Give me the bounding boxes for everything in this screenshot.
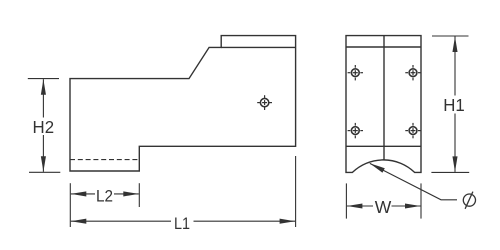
svg-text:H1: H1 bbox=[443, 95, 465, 115]
left view outline bbox=[70, 36, 296, 171]
dimension H2 bbox=[28, 79, 61, 173]
left view top plate edge line bbox=[221, 46, 295, 48]
dimension L1 bbox=[71, 156, 296, 227]
diameter symbol bbox=[463, 192, 475, 209]
hole center mark bottom-right bbox=[405, 123, 420, 138]
svg-text:L2: L2 bbox=[96, 187, 113, 205]
dimension H1 bbox=[431, 36, 469, 172]
hole center mark left view bbox=[257, 95, 272, 110]
hidden line (dashed) bbox=[70, 159, 139, 161]
dimension W bbox=[346, 183, 421, 218]
svg-text:H2: H2 bbox=[33, 117, 55, 137]
diameter leader line bbox=[370, 163, 457, 199]
svg-text:W: W bbox=[375, 197, 392, 217]
hole center mark bottom-left bbox=[348, 123, 363, 138]
right view center seam line bbox=[383, 36, 385, 160]
svg-text:L1: L1 bbox=[174, 214, 190, 233]
hole center mark top-right bbox=[405, 65, 420, 80]
leader arrowhead bbox=[370, 163, 385, 172]
right view step line bbox=[346, 145, 421, 147]
right view top edge line bbox=[346, 46, 421, 48]
hole center mark top-left bbox=[348, 65, 363, 80]
right view outline with arch cut bbox=[346, 36, 421, 173]
dimension L2 bbox=[70, 183, 139, 227]
